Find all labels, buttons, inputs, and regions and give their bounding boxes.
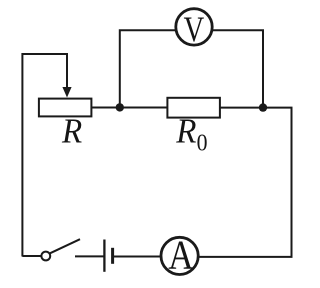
wire: from R to R0 through left node <box>92 107 168 109</box>
resistor R0 <box>167 98 220 118</box>
wire: left branch (horizontal at top of rheostat arm + left vertical down to switch) <box>22 54 67 257</box>
svg-text:R: R <box>61 111 82 151</box>
battery cell <box>104 240 112 272</box>
wire: ammeter to bottom right corner <box>199 256 293 258</box>
voltmeter V <box>176 9 212 49</box>
wire: bottom left segment (left vertical to switch) <box>22 255 41 257</box>
wire: from R0 right to corner and down right edge <box>221 108 292 257</box>
label R0 <box>175 111 207 157</box>
rheostat slider arrow <box>62 53 71 98</box>
wire: battery to ammeter <box>114 256 161 258</box>
svg-text:0: 0 <box>197 130 208 156</box>
svg-text:V: V <box>184 9 205 49</box>
node: junction right <box>259 103 267 111</box>
switch (open) <box>41 239 80 260</box>
ammeter A <box>161 231 198 277</box>
node: junction left <box>116 103 124 111</box>
svg-text:A: A <box>168 231 193 277</box>
resistor R (rheostat body) <box>39 99 92 117</box>
wire: switch contact to battery <box>75 255 104 257</box>
wire: voltmeter branch right (across, down to right node) <box>213 30 263 107</box>
wire: voltmeter branch left (up from left node, across to voltmeter) <box>120 30 175 107</box>
svg-text:R: R <box>175 111 196 151</box>
